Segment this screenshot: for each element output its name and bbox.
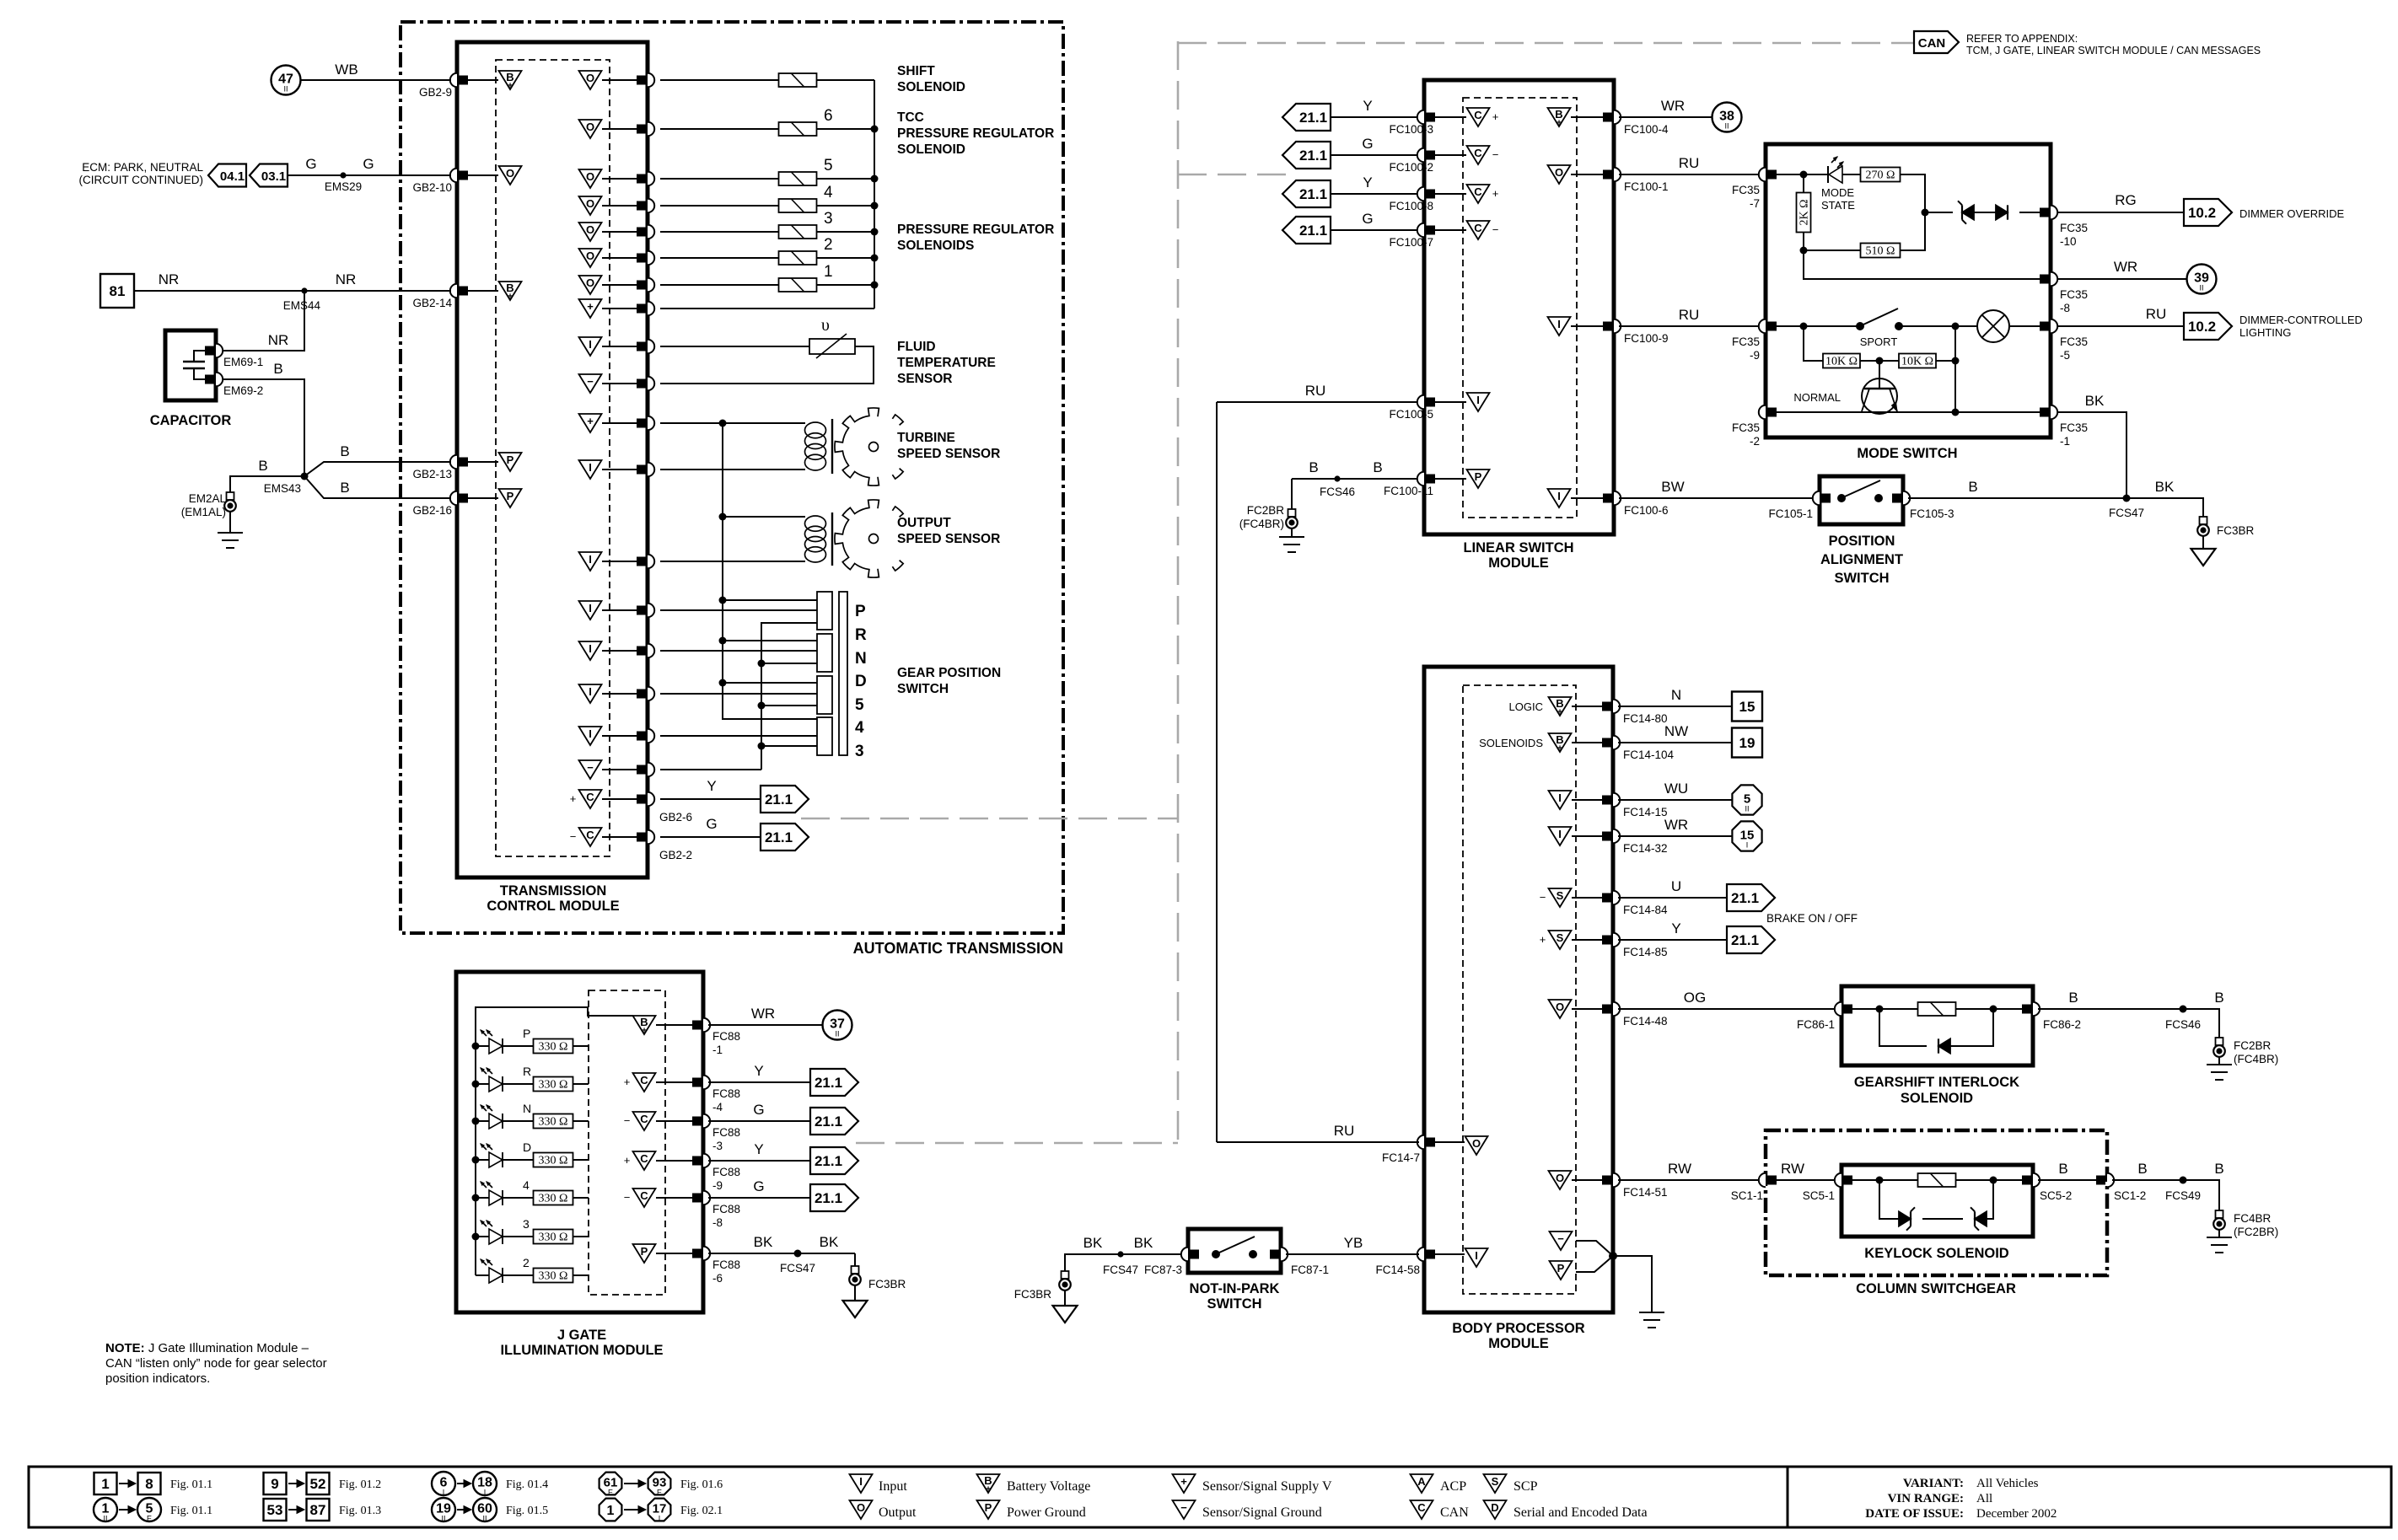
TCM right pin symbol − at y=455 (579, 374, 602, 393)
svg-text:+: + (1557, 708, 1562, 717)
wire B to GB2-16 (304, 476, 451, 498)
svg-text:FC100-3: FC100-3 (1389, 123, 1433, 136)
BPM pin symbol I (FC14-15) (1549, 791, 1572, 809)
svg-text:I: I (1558, 791, 1562, 804)
wire RU into FC100-5 (1217, 401, 1419, 403)
TCM right pin symbol I at y=772 (579, 641, 602, 660)
solenoid bus vertical (874, 80, 875, 309)
wire RW to SC1-1 (1618, 1179, 1761, 1181)
wire WR to circle 39 (2057, 278, 2186, 280)
module box TRANSMISSION CONTROL MODULE (457, 42, 648, 877)
svg-text:I: I (443, 1489, 445, 1497)
JGIM LED supply rail (476, 1007, 633, 1275)
svg-text:WR: WR (2114, 259, 2137, 275)
svg-text:2: 2 (824, 236, 833, 254)
svg-text:A: A (1417, 1475, 1426, 1488)
svg-text:FC105-3: FC105-3 (1910, 507, 1954, 520)
svg-text:-1: -1 (712, 1044, 723, 1056)
BPM pin FC14-80 (1613, 700, 1620, 713)
legend entry 6->18 Fig. 01.4 (432, 1472, 455, 1495)
svg-text:B: B (2214, 990, 2223, 1006)
svg-text:FC86-2: FC86-2 (2043, 1018, 2081, 1031)
svg-text:Sensor/Signal Supply V: Sensor/Signal Supply V (1202, 1479, 1332, 1494)
svg-text:ALIGNMENT: ALIGNMENT (1820, 552, 1903, 567)
LSM pin symbol C (FC100-8) (1467, 185, 1490, 203)
svg-text:RU: RU (1334, 1123, 1355, 1139)
svg-text:270 Ω: 270 Ω (1866, 169, 1895, 182)
svg-text:E: E (147, 1515, 152, 1523)
svg-text:FC100-4: FC100-4 (1624, 123, 1669, 136)
splice EMS43 (301, 473, 309, 480)
svg-text:I: I (1557, 490, 1561, 502)
wire G FC88 to 21.1 (708, 1197, 810, 1199)
TCM pin symbol C− (GB2-2) (579, 828, 602, 846)
module box BODY PROCESSOR MODULE (1424, 667, 1613, 1312)
svg-text:TEMPERATURE: TEMPERATURE (897, 356, 996, 370)
svg-text:1: 1 (824, 263, 833, 281)
LSM pin FC100-9 (1614, 319, 1621, 333)
transistor (mode normal) (1862, 378, 1897, 414)
svg-text:FC14-32: FC14-32 (1623, 842, 1668, 855)
module box LINEAR SWITCH MODULE (1424, 80, 1614, 534)
svg-text:B: B (2068, 990, 2078, 1006)
svg-text:-2: -2 (1750, 435, 1760, 448)
line B feed D (761, 663, 817, 664)
svg-text:O: O (586, 223, 594, 236)
wire B to ground EM2AL (230, 476, 304, 492)
wire resistor 2 to connector (573, 1274, 589, 1276)
arrow 21.1 (JGIM G y=1330) (810, 1108, 858, 1135)
svg-text:O: O (1555, 166, 1563, 179)
TCM right pin symbol I at y=411 (579, 337, 602, 356)
KLS pin SC5-2 (2033, 1173, 2040, 1187)
wire RU to 10.2 (2057, 325, 2184, 327)
wire between 10K (1860, 360, 1899, 362)
svg-text:SENSOR: SENSOR (897, 372, 952, 386)
svg-text:P: P (641, 1245, 648, 1258)
JGIM pin symbol P (FC88-6) (633, 1244, 656, 1263)
svg-text:C: C (1474, 147, 1482, 159)
wire BK from FC35-1 (2057, 412, 2126, 498)
svg-text:10.2: 10.2 (2188, 205, 2216, 221)
TCM right pin symbol O at y=153 (579, 120, 602, 138)
svg-text:D: D (855, 673, 867, 690)
LED 2 (489, 1268, 503, 1283)
svg-text:AUTOMATIC TRANSMISSION: AUTOMATIC TRANSMISSION (853, 940, 1063, 957)
svg-text:SPEED SENSOR: SPEED SENSOR (897, 447, 1000, 461)
svg-text:FC100-11: FC100-11 (1384, 485, 1433, 497)
svg-text:Battery Voltage: Battery Voltage (1007, 1479, 1090, 1494)
LED R branch (472, 1081, 480, 1088)
PAS pin FC105-3 (1903, 491, 1910, 505)
mode pin FC35-8 (2051, 272, 2057, 286)
wire B SC1-2 to ground (2112, 1180, 2219, 1210)
CSG pin SC1-2 (2107, 1173, 2114, 1187)
resistor 330 ohm (3) (534, 1230, 573, 1244)
LSM pin symbol I (FC100-9) (1548, 317, 1571, 335)
BPM internal ground ties (1576, 1241, 1613, 1256)
transistor base wire (1879, 361, 1880, 380)
svg-text:+: + (508, 82, 513, 91)
LED N (489, 1113, 503, 1129)
solenoid element (KLS) (1918, 1173, 1956, 1187)
svg-text:330 Ω: 330 Ω (539, 1270, 568, 1283)
arrow 21.1 into FC100-7 (1282, 217, 1331, 244)
svg-text:R: R (523, 1065, 531, 1078)
BPM pin symbol O (FC14-51) (1549, 1171, 1572, 1189)
JGIM pin symbol C+ (FC88-4) (633, 1073, 656, 1092)
svg-text:-10: -10 (2060, 235, 2077, 248)
svg-text:LIGHTING: LIGHTING (2239, 326, 2291, 339)
svg-text:I: I (589, 338, 592, 351)
wire B into FC100-11 (1292, 478, 1419, 480)
svg-text:O: O (857, 1501, 865, 1514)
wire resistor 4 to connector (573, 1197, 589, 1199)
connector box 19 (1732, 728, 1762, 758)
svg-text:II: II (2199, 284, 2203, 292)
module box MODE SWITCH (1766, 144, 2051, 437)
TCM right pin symbol O at y=306 (579, 249, 602, 267)
resistor 330 ohm (4) (534, 1191, 573, 1205)
legend symbol - Sensor Ground (1173, 1500, 1196, 1519)
wire NW to box 19 (1618, 742, 1732, 743)
arrow 10.2 (dimmer controlled) (2184, 313, 2232, 340)
TCM pin symbol C+ (GB2-6) (579, 790, 602, 808)
svg-text:21.1: 21.1 (1299, 110, 1327, 126)
wire B SC5-2 to SC1-2 (2038, 1179, 2102, 1181)
svg-text:C: C (1417, 1501, 1426, 1514)
svg-text:YB: YB (1344, 1235, 1363, 1251)
svg-text:FC100-6: FC100-6 (1624, 504, 1669, 517)
svg-text:FC35: FC35 (2060, 421, 2088, 434)
TCM right pin symbol I at y=823 (579, 684, 602, 703)
capacitor element (194, 351, 207, 362)
TCM pin GB2-14 (450, 284, 457, 298)
svg-text:RW: RW (1781, 1161, 1804, 1177)
svg-text:GB2-9: GB2-9 (419, 86, 452, 99)
resistor 10K ohm left (1823, 354, 1860, 368)
svg-text:81: 81 (110, 283, 126, 299)
gear switch contact block PR (817, 592, 832, 630)
svg-text:Input: Input (879, 1479, 907, 1494)
svg-text:9: 9 (271, 1476, 278, 1492)
svg-text:position indicators.: position indicators. (105, 1371, 210, 1386)
connector box 81 (100, 274, 134, 308)
wire 10K to vertical (1936, 360, 1955, 362)
wire G FC88 to 21.1 (708, 1120, 810, 1122)
wire RU into FC14-7 (1217, 1141, 1419, 1143)
svg-text:RU: RU (2146, 306, 2167, 322)
TCM right pin symbol + at y=502 (579, 414, 602, 432)
connector circle 37 (823, 1011, 852, 1040)
gear switch contact block ND (817, 634, 832, 672)
module box POSITION ALIGNMENT SWITCH (1820, 476, 1903, 524)
CAN bus gray branch from TCM (801, 818, 1178, 820)
gear switch common feed 4 (723, 683, 817, 719)
common sensor ground line A upper (722, 423, 723, 517)
JGIM pin symbol B+ (FC88-1) (633, 1016, 656, 1034)
svg-text:I: I (484, 1489, 487, 1497)
svg-text:Serial and Encoded Data: Serial and Encoded Data (1514, 1505, 1648, 1520)
svg-text:P: P (1475, 470, 1482, 483)
svg-text:EMS43: EMS43 (264, 482, 301, 495)
LSM pin symbol C (FC100-3) (1467, 108, 1490, 126)
svg-text:Fig. 02.1: Fig. 02.1 (680, 1505, 723, 1517)
svg-text:GEAR POSITION: GEAR POSITION (897, 666, 1001, 680)
LSM pin symbol I (FC100-6) (1548, 489, 1571, 507)
svg-text:II: II (835, 1030, 839, 1038)
svg-text:FC105-1: FC105-1 (1768, 507, 1813, 520)
svg-text:−: − (570, 830, 577, 843)
svg-text:GB2-14: GB2-14 (412, 297, 452, 309)
legend symbol I Input (850, 1474, 873, 1493)
wire output sensor top from line A (723, 516, 805, 518)
svg-text:G: G (706, 816, 717, 832)
wire fluid temp sensor top (660, 346, 809, 347)
svg-text:21.1: 21.1 (815, 1075, 842, 1091)
wire G to FC100-7 (1331, 229, 1419, 231)
svg-text:I: I (1746, 841, 1749, 850)
resistor 510 ohm (1861, 244, 1901, 258)
svg-text:FC35: FC35 (1732, 421, 1760, 434)
svg-text:G: G (753, 1178, 764, 1194)
svg-text:FCS47: FCS47 (780, 1262, 815, 1274)
capacitor pin EM69-1 (216, 344, 223, 357)
svg-text:−: − (1540, 891, 1546, 904)
svg-text:1: 1 (101, 1476, 109, 1492)
wire gear 4 from pin (660, 735, 817, 737)
wire diode to FC35-10 (2019, 212, 2040, 213)
connector circle 47 (272, 66, 301, 95)
svg-text:C: C (1474, 109, 1482, 121)
CSG pin SC1-1 (1759, 1173, 1766, 1187)
svg-text:330 Ω: 330 Ω (539, 1155, 568, 1167)
NIP pin FC87-3 (1181, 1248, 1188, 1261)
svg-text:330 Ω: 330 Ω (539, 1231, 568, 1244)
JGIM inner connector dashed box (589, 990, 665, 1295)
splice FCS47 (NIP) (1117, 1251, 1123, 1257)
wire LED to 270 (1842, 174, 1861, 175)
wire shift solenoid row (660, 79, 779, 81)
legend symbol P Power Ground (977, 1500, 1000, 1519)
svg-text:FC4BR: FC4BR (2234, 1212, 2272, 1225)
svg-text:+: + (624, 1076, 631, 1088)
svg-text:19: 19 (1739, 735, 1755, 751)
wire WB (301, 79, 451, 81)
wire NORMAL row (1777, 411, 2040, 413)
svg-text:-1: -1 (2060, 435, 2070, 448)
svg-text:DIMMER-CONTROLLED: DIMMER-CONTROLLED (2239, 314, 2363, 326)
svg-text:Fig. 01.1: Fig. 01.1 (170, 1505, 212, 1517)
svg-text:21.1: 21.1 (1731, 932, 1759, 948)
output sensor coil (805, 516, 826, 531)
ground stud EM2AL (227, 492, 234, 500)
svg-text:FC87-3: FC87-3 (1144, 1264, 1182, 1276)
LED D branch (472, 1156, 480, 1164)
svg-text:FCS47: FCS47 (2109, 507, 2144, 519)
wire gear P from pin (660, 609, 817, 611)
svg-text:POSITION: POSITION (1829, 534, 1895, 549)
svg-text:C: C (586, 829, 594, 841)
svg-text:WR: WR (751, 1006, 775, 1022)
svg-text:Y: Y (707, 778, 716, 794)
svg-text:-6: -6 (712, 1272, 723, 1285)
svg-text:Sensor/Signal Ground: Sensor/Signal Ground (1202, 1505, 1322, 1520)
svg-text:STATE: STATE (1821, 199, 1855, 212)
svg-text:I: I (1476, 394, 1480, 406)
svg-text:GB2-10: GB2-10 (412, 181, 452, 194)
LSM pin symbol B+ (FC100-4) (1548, 108, 1571, 126)
svg-text:MODULE: MODULE (1488, 1336, 1549, 1351)
svg-text:SWITCH: SWITCH (1207, 1296, 1261, 1312)
svg-text:21.1: 21.1 (815, 1153, 842, 1169)
svg-text:SWITCH: SWITCH (1834, 571, 1889, 586)
svg-text:3: 3 (855, 743, 864, 760)
BPM pin symbol S- (FC14-84) (1549, 888, 1572, 907)
svg-text:TRANSMISSION: TRANSMISSION (500, 883, 607, 899)
gear switch common feed P (723, 599, 817, 601)
svg-text:−: − (1492, 223, 1499, 236)
svg-text:E: E (657, 1489, 662, 1497)
svg-text:I: I (589, 727, 592, 740)
connector octagon 15 I (1732, 821, 1761, 850)
wire RW SC1-1 to SC5-1 (1771, 1179, 1836, 1181)
svg-text:EM2AL: EM2AL (189, 492, 227, 505)
wire pressure regulator solenoid 3 row (660, 231, 779, 233)
wire diode row (1925, 212, 1953, 213)
svg-text:REFER TO APPENDIX:: REFER TO APPENDIX: (1966, 33, 2078, 45)
GIS flyback diode loop (1879, 1009, 1927, 1046)
solenoid pressure regulator 1 (779, 278, 817, 292)
svg-text:+: + (508, 292, 513, 302)
BPM pin FC14-104 (1613, 736, 1620, 749)
svg-text:ACP: ACP (1440, 1479, 1466, 1494)
svg-text:Fig. 01.3: Fig. 01.3 (339, 1505, 381, 1517)
svg-text:+: + (986, 1485, 991, 1494)
svg-text:Fig. 01.1: Fig. 01.1 (170, 1478, 212, 1491)
legend entry 19->60 Fig. 01.5 (432, 1498, 455, 1521)
legend symbol D Serial (1484, 1500, 1507, 1519)
wire LED N to resistor (503, 1120, 533, 1122)
ground stud FC2BR (FC4BR) (1288, 509, 1296, 517)
gear switch contact block D5 (817, 676, 832, 714)
svg-text:II: II (1745, 805, 1749, 813)
svg-text:FC2BR: FC2BR (2234, 1039, 2272, 1052)
diode (FC35-10) (1996, 205, 2008, 219)
TCM right pin symbol O at y=95 (579, 71, 602, 89)
svg-text:FC3BR: FC3BR (1014, 1288, 1052, 1301)
JGIM pin FC88-1 (703, 1018, 710, 1032)
wire Y to FC100-3 (1331, 116, 1419, 118)
svg-text:4: 4 (824, 184, 833, 201)
svg-text:OG: OG (1684, 990, 1706, 1006)
BPM pin FC14-32 (1613, 829, 1620, 843)
svg-text:DATE OF ISSUE:: DATE OF ISSUE: (1865, 1507, 1964, 1521)
svg-text:−: − (1557, 1232, 1564, 1245)
wire turbine sensor supply (660, 422, 805, 424)
mode switch SPORT contact (1856, 322, 1864, 330)
svg-text:R: R (855, 626, 867, 644)
module box J GATE ILLUMINATION MODULE (456, 972, 703, 1312)
svg-text:B: B (2137, 1161, 2147, 1177)
svg-text:PRESSURE REGULATOR: PRESSURE REGULATOR (897, 223, 1054, 237)
wire solenoid 1 to bus + junction (817, 284, 874, 286)
svg-text:N: N (855, 650, 867, 668)
svg-text:I: I (1557, 318, 1561, 330)
wire divider tap to FC35-8 (1804, 250, 2040, 279)
TCM pin symbol B+ (GB2-9) (499, 71, 522, 89)
legend symbol A ACP (1411, 1474, 1433, 1493)
svg-text:ECM: PARK, NEUTRAL: ECM: PARK, NEUTRAL (82, 161, 203, 174)
LED 3 (489, 1229, 503, 1244)
arrow 21.1 into FC100-2 (1282, 142, 1331, 169)
svg-text:FC88: FC88 (712, 1087, 740, 1100)
wire Y to 21.1 (1618, 939, 1727, 941)
BPM pin symbol I (FC14-32) (1549, 827, 1572, 845)
svg-text:D: D (1491, 1501, 1498, 1514)
svg-text:II: II (1724, 122, 1729, 131)
wire N to box 15 (1618, 706, 1732, 707)
svg-text:B: B (258, 458, 267, 474)
mode pin FC35-5 (2051, 319, 2057, 333)
zener diode left (KLS) (1899, 1211, 1911, 1226)
CAN arrow marker (1914, 31, 1959, 53)
resistor 330 ohm (N) (534, 1114, 573, 1129)
KLS zener loop (1879, 1180, 1899, 1219)
wire fluid temp sensor loop (660, 346, 874, 384)
wire pressure regulator solenoid 2 row (660, 257, 779, 259)
svg-text:NORMAL: NORMAL (1793, 391, 1841, 404)
svg-text:+: + (1492, 187, 1499, 200)
splice FCS47 (JGIM) (794, 1250, 802, 1258)
svg-text:+: + (1557, 119, 1562, 128)
svg-text:Fig. 01.5: Fig. 01.5 (506, 1505, 548, 1517)
vertical lamp branch (1954, 326, 1956, 412)
svg-text:I: I (859, 1475, 863, 1488)
svg-text:03.1: 03.1 (261, 169, 286, 184)
line B feed 3b (761, 745, 817, 747)
svg-text:RU: RU (1305, 383, 1326, 399)
splice EMS29 (340, 172, 346, 178)
svg-text:21.1: 21.1 (815, 1113, 842, 1130)
ground BPM bars (1639, 1312, 1664, 1313)
svg-text:OUTPUT: OUTPUT (897, 516, 951, 530)
wire BPM ground (1613, 1256, 1652, 1312)
svg-text:330 Ω: 330 Ω (539, 1193, 568, 1205)
BPM pin FC14-51 (1613, 1173, 1620, 1187)
svg-text:NOT-IN-PARK: NOT-IN-PARK (1190, 1281, 1280, 1296)
svg-text:FC14-7: FC14-7 (1382, 1151, 1420, 1164)
gear switch slider bar (839, 592, 847, 755)
CAN bus gray branch from J gate module (856, 1142, 1178, 1145)
resistor 270 ohm (1861, 168, 1901, 182)
svg-text:VARIANT:: VARIANT: (1903, 1477, 1964, 1490)
svg-text:Output: Output (879, 1505, 917, 1520)
svg-text:E: E (608, 1489, 613, 1497)
svg-text:All Vehicles: All Vehicles (1976, 1477, 2039, 1490)
svg-text:CAN: CAN (1440, 1505, 1469, 1520)
svg-text:10K Ω: 10K Ω (1825, 356, 1858, 368)
svg-text:Y: Y (754, 1141, 763, 1157)
ground triangle FC3BR (NIP) (1053, 1306, 1078, 1323)
wire WR to circle 37 (708, 1024, 822, 1026)
svg-text:II: II (441, 1515, 445, 1523)
TCM pin GB2-16 (450, 491, 457, 505)
JGIM pin symbol C- (FC88-3) (633, 1112, 656, 1130)
solenoid pressure regulator 3 (779, 225, 817, 239)
ground FC4BR bars (KLS) (2207, 1237, 2232, 1238)
wire resistor D to connector (573, 1159, 589, 1161)
